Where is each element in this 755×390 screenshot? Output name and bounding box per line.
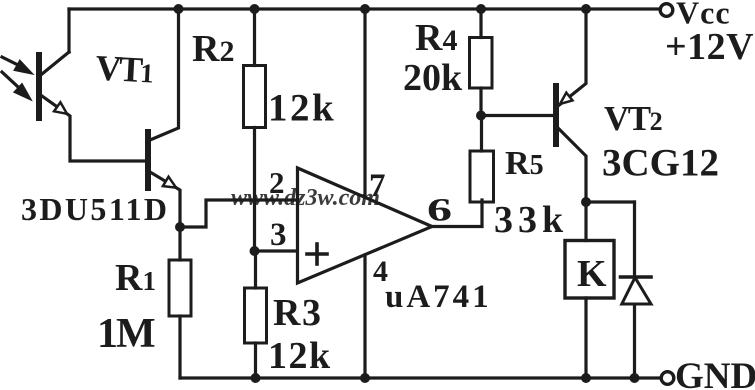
- svg-text:3: 3: [270, 217, 287, 253]
- svg-text:VT1: VT1: [95, 48, 155, 91]
- light arrow 2: [2, 72, 29, 98]
- svg-text:12k: 12k: [268, 335, 332, 377]
- svg-text:GND: GND: [675, 356, 755, 390]
- junction VT2 collector node: [581, 197, 591, 207]
- wire node to op-amp pin 3: [255, 249, 297, 252]
- svg-text:R2: R2: [192, 28, 234, 70]
- svg-text:3CG12: 3CG12: [602, 142, 719, 185]
- svg-text:7: 7: [369, 168, 386, 204]
- junction R4 / top rail: [476, 4, 486, 14]
- svg-text:uA741: uA741: [385, 279, 492, 315]
- svg-text:+12V: +12V: [665, 26, 754, 68]
- svg-text:2: 2: [269, 165, 285, 200]
- wire top-left corner down: [67, 9, 70, 52]
- junction VT1 emitter / R1: [175, 222, 185, 232]
- svg-text:6: 6: [427, 193, 452, 229]
- svg-text:20k: 20k: [403, 57, 463, 99]
- svg-text:R4: R4: [415, 17, 457, 59]
- junction R2 R3 divider node: [250, 246, 260, 256]
- svg-text:3DU511D: 3DU511D: [21, 191, 169, 227]
- junction R4 R5 node: [476, 111, 486, 121]
- wire op-amp pin 4: [363, 255, 366, 378]
- resistor R3: [245, 251, 267, 378]
- light arrow 1: [2, 57, 30, 73]
- svg-text:33k: 33k: [494, 199, 568, 241]
- svg-text:K: K: [577, 253, 607, 295]
- wire bottom rail GND: [180, 376, 661, 379]
- svg-text:R5: R5: [505, 145, 544, 182]
- resistor R5: [470, 116, 494, 203]
- relay K: [565, 202, 614, 378]
- phototransistor 3DU511D: [39, 52, 148, 161]
- transistor VT2: [556, 9, 586, 202]
- terminal GND: [661, 372, 674, 385]
- wire op-amp pin 6 output: [432, 200, 482, 227]
- wire VT2 collector node to diode branch: [586, 200, 635, 203]
- svg-text:12k: 12k: [268, 87, 336, 130]
- svg-text:R3: R3: [273, 292, 322, 334]
- wire op-amp pin 7: [363, 9, 366, 197]
- wire top rail Vcc: [69, 7, 660, 10]
- wire R4-R5 node to VT2 base: [481, 114, 557, 117]
- op-amp plus symbol: [307, 244, 327, 264]
- junction R2 / top rail: [250, 4, 260, 14]
- junction diode / bottom rail: [630, 373, 640, 383]
- junction VT1 collector / top rail: [174, 4, 184, 14]
- junction R3 / bottom rail: [251, 373, 261, 383]
- resistor R1: [169, 227, 191, 378]
- transistor VT1: [148, 9, 180, 227]
- svg-text:R1: R1: [115, 257, 156, 299]
- svg-text:1M: 1M: [97, 311, 155, 357]
- resistor R4: [470, 9, 493, 116]
- resistor R2: [244, 9, 266, 251]
- svg-text:VT2: VT2: [604, 99, 662, 138]
- junction pin4 / bottom rail: [360, 373, 370, 383]
- terminal Vcc: [660, 4, 673, 17]
- wire VT1 emitter to op-amp pin 2: [180, 200, 297, 227]
- junction pin7 / top rail: [360, 4, 370, 14]
- diode VD: [621, 202, 652, 378]
- junction VT2 emitter / top rail: [581, 4, 591, 14]
- junction relay / bottom rail: [581, 373, 591, 383]
- op-amp U1 uA741: [298, 168, 433, 283]
